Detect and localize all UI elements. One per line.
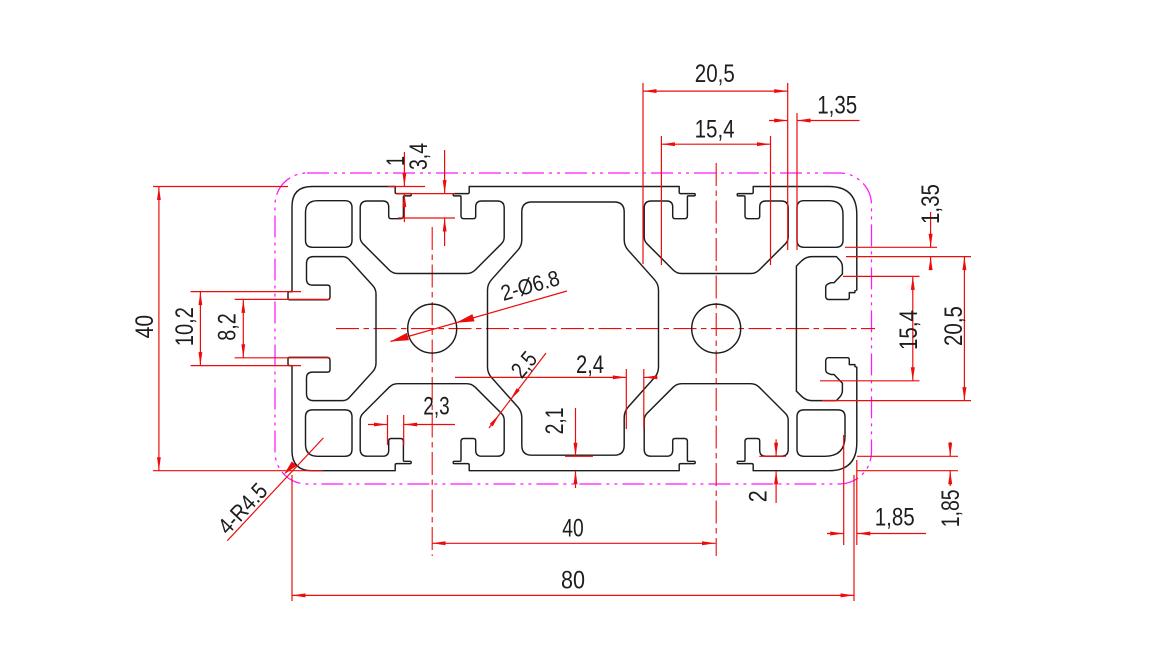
svg-text:20,5: 20,5 <box>940 306 968 346</box>
dimension 15,4 top <box>660 136 662 265</box>
corner chamber bottom-left <box>306 410 353 456</box>
svg-text:10,2: 10,2 <box>171 307 199 346</box>
dimension 2,1 bottom wall <box>565 455 593 457</box>
core hole 1 <box>408 304 457 353</box>
dimension 80 bottom <box>291 475 293 601</box>
corner chamber top-right <box>797 201 843 248</box>
dimension 20,5 right side <box>822 400 971 402</box>
centerline horizontal <box>336 328 875 330</box>
dimension 1,85 right <box>857 455 958 457</box>
centerline vertical hole 2 <box>715 163 717 556</box>
dimension 2,4 center web <box>625 369 627 429</box>
svg-text:80: 80 <box>561 567 585 595</box>
corner chamber top-left <box>306 201 353 248</box>
svg-text:20,5: 20,5 <box>695 60 735 88</box>
svg-text:15,4: 15,4 <box>895 310 923 350</box>
svg-text:40: 40 <box>131 315 159 339</box>
dimension 20,5 top <box>642 83 644 264</box>
dimension 1 top slot <box>388 186 425 188</box>
dimension 2 bottom right slot wall <box>759 455 786 457</box>
svg-text:2,4: 2,4 <box>576 351 604 379</box>
phantom envelope outline <box>275 173 872 484</box>
dimension 1,85 bottom <box>843 435 845 545</box>
core hole 2 <box>692 304 741 353</box>
centerline vertical hole 1 <box>431 227 433 556</box>
dimension 8,2 left <box>235 298 330 300</box>
svg-text:2,1: 2,1 <box>541 407 569 434</box>
dimension 1,35 right side <box>845 246 937 248</box>
dimension 15,4 right side <box>843 275 920 277</box>
svg-text:15,4: 15,4 <box>695 116 735 144</box>
svg-text:1,85: 1,85 <box>937 489 965 527</box>
dimension 40 left <box>153 186 288 188</box>
svg-text:1,35: 1,35 <box>817 92 857 120</box>
svg-text:1,35: 1,35 <box>917 184 945 224</box>
svg-text:8,2: 8,2 <box>214 313 242 340</box>
dimension 3,4 top slot <box>398 217 455 219</box>
svg-text:2,3: 2,3 <box>423 393 449 421</box>
central chamber <box>488 202 659 455</box>
svg-text:40: 40 <box>562 515 583 543</box>
svg-text:2: 2 <box>745 490 773 502</box>
dimension 40 bottom <box>432 542 716 544</box>
dimension 2,3 bottom left slot <box>387 415 389 445</box>
leader 2-O6.8 holes <box>391 291 568 342</box>
svg-text:3,4: 3,4 <box>405 143 433 170</box>
leader 4-R4.5 corner radius <box>227 438 323 541</box>
dimension 1,35 top right <box>796 113 798 250</box>
leader 2,5 web thickness <box>489 353 546 428</box>
dimension 10,2 left <box>191 291 301 293</box>
svg-text:1,85: 1,85 <box>875 504 915 532</box>
corner chamber bottom-right <box>797 410 845 456</box>
profile outer outline with slots <box>288 187 857 471</box>
